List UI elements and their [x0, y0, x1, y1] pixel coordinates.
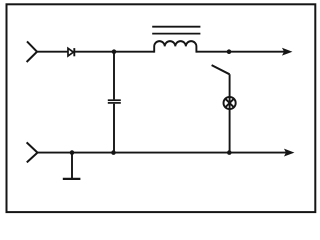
wire terminal to diode [37, 51, 68, 53]
output arrow top [283, 49, 291, 55]
wire switch pivot down through lamp [229, 74, 231, 152]
input terminal top [27, 41, 37, 62]
inductor L1 [154, 41, 196, 52]
iron core of L1 [152, 27, 200, 34]
ground symbol [63, 153, 81, 179]
switch S1 (open blade) [212, 65, 230, 74]
node junction bottom of lamp branch [227, 150, 232, 155]
node junction top of switch branch [227, 49, 232, 54]
capacitor C1 top lead wire [113, 52, 115, 100]
input terminal bottom [27, 142, 38, 162]
lamp (circle with cross) [224, 97, 236, 109]
diode D1 [68, 48, 74, 56]
capacitor C1 bottom lead wire [113, 104, 115, 153]
capacitor C1 plates [108, 100, 121, 103]
wire inductor to output arrow [196, 51, 284, 53]
node junction top of capacitor branch [112, 49, 117, 54]
output arrow bottom [285, 150, 293, 156]
node junction ground [70, 150, 75, 155]
node junction bottom of capacitor branch [111, 150, 116, 155]
wire bottom rail [38, 152, 287, 154]
wire diode to inductor [74, 51, 154, 53]
